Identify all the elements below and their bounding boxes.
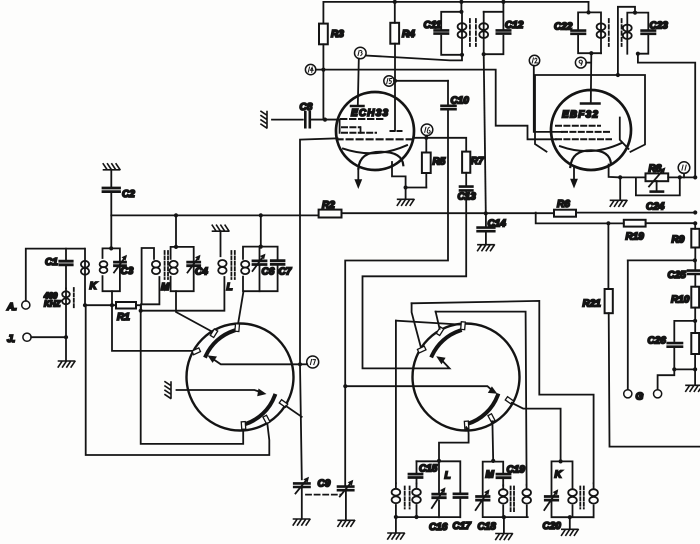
tuned circuit M band bbox=[174, 245, 178, 249]
trimmer C16 bbox=[433, 494, 445, 498]
svg-text:K: K bbox=[555, 470, 563, 481]
svg-text:M: M bbox=[161, 282, 170, 293]
svg-text:R3: R3 bbox=[331, 29, 344, 40]
svg-text:R7: R7 bbox=[471, 156, 484, 167]
svg-text:C22: C22 bbox=[554, 22, 573, 33]
terminal G right bbox=[654, 390, 662, 398]
wire link K osc band bbox=[412, 301, 594, 483]
svg-text:R9: R9 bbox=[672, 235, 685, 246]
coil M oscillator secondary bbox=[526, 485, 528, 517]
S2 rotor arc lower bbox=[468, 395, 498, 424]
wire K contact feed bbox=[112, 305, 192, 351]
svg-text:C15: C15 bbox=[419, 464, 438, 475]
terminal 13 bbox=[355, 47, 367, 59]
resistor R19 bbox=[624, 220, 646, 227]
wire K foot bbox=[111, 291, 113, 305]
ECH33 anode bbox=[351, 105, 364, 108]
ground above C2 bbox=[103, 164, 120, 170]
svg-text:C2: C2 bbox=[122, 189, 135, 200]
EBF32 inner anode lead bbox=[620, 118, 629, 149]
capacitor C7 bbox=[271, 261, 284, 265]
coil T2 primary bbox=[589, 12, 602, 53]
svg-text:R21: R21 bbox=[583, 299, 602, 310]
svg-text:R5: R5 bbox=[433, 157, 446, 168]
wire R21 to lower right bbox=[609, 313, 700, 446]
capacitor C24 bbox=[636, 177, 680, 195]
coil K tuned bbox=[100, 261, 108, 267]
trimmer C3 bbox=[115, 262, 126, 266]
S1 rotor arc upper bbox=[206, 331, 234, 356]
core K osc bbox=[580, 487, 584, 509]
EBF32 cathode bbox=[560, 143, 622, 151]
svg-text:R8: R8 bbox=[649, 164, 662, 175]
svg-text:L: L bbox=[445, 471, 451, 482]
capacitor C8 with ground bbox=[261, 111, 267, 128]
svg-text:C4: C4 bbox=[195, 267, 208, 278]
svg-text:EBF32: EBF32 bbox=[562, 110, 599, 121]
wire 15 line to C10 bbox=[394, 80, 448, 82]
ground above L bbox=[212, 225, 229, 231]
svg-text:C3: C3 bbox=[121, 266, 134, 277]
coil T1 primary bbox=[461, 12, 463, 55]
op tube ECH33 envelope bbox=[336, 92, 414, 170]
capacitor C19 bbox=[497, 474, 510, 478]
wire C23 bottom to node 11 riser bbox=[638, 54, 695, 178]
rotary switch S2 bbox=[413, 324, 520, 431]
svg-text:M: M bbox=[486, 470, 495, 481]
wire wiper 2 with arrow bbox=[177, 390, 260, 392]
frame M osc bbox=[483, 462, 528, 517]
wire 9 drop to EBF32 anode bbox=[590, 53, 593, 103]
resistor R9 bbox=[694, 223, 696, 229]
tuned circuit L band bbox=[259, 245, 263, 249]
resistor R21 bbox=[607, 223, 609, 289]
svg-text:C8: C8 bbox=[300, 102, 313, 113]
frame K osc bbox=[552, 461, 594, 517]
rotary switch S1 bbox=[187, 324, 294, 431]
capacitor C23 bbox=[635, 13, 648, 54]
ground C1 foot bbox=[65, 337, 67, 361]
terminal A bbox=[22, 301, 30, 309]
svg-text:C9: C9 bbox=[318, 479, 331, 490]
terminal 14 bbox=[305, 64, 315, 74]
wire S2 bottom contact to L osc bbox=[439, 427, 469, 461]
frame L osc bbox=[396, 461, 460, 517]
node junction R3/14 bbox=[321, 68, 325, 72]
potentiometer R8 bbox=[620, 176, 695, 178]
capacitor C15 bbox=[416, 461, 418, 483]
coil T2 secondary bbox=[618, 7, 635, 75]
capacitor C25 bbox=[688, 271, 700, 274]
capacitor C22 bbox=[578, 12, 601, 53]
terminal J bbox=[23, 333, 31, 341]
capacitor C10 bbox=[447, 81, 449, 213]
svg-text:C12: C12 bbox=[505, 20, 524, 31]
S2 contact studs bbox=[417, 322, 513, 429]
coil K oscillator secondary bbox=[593, 483, 595, 517]
wire M foot to switch contact bbox=[176, 291, 212, 331]
resistor R10 bbox=[691, 287, 699, 308]
resistor R5 bbox=[425, 138, 427, 188]
resistor R3 bbox=[322, 2, 324, 120]
wire G branch top bbox=[628, 259, 695, 261]
svg-text:C14: C14 bbox=[488, 219, 507, 230]
tuned circuit K band bbox=[109, 246, 113, 250]
node C14 junction bbox=[484, 211, 488, 215]
resistor R2 bbox=[319, 210, 342, 218]
wire L foot to switch contact bbox=[238, 291, 244, 325]
ground EBF32 cathode bbox=[619, 177, 621, 200]
coil L aerial bbox=[141, 231, 225, 311]
svg-text:J.: J. bbox=[7, 334, 15, 345]
EBF32 heater lead arrow bbox=[573, 168, 575, 181]
EBF32 grid rows bbox=[556, 125, 600, 127]
wire osc wiper 2 from C9 bbox=[345, 386, 492, 390]
svg-text:ECH33: ECH33 bbox=[351, 108, 389, 119]
core M bbox=[165, 251, 168, 279]
wire S2 contact to M osc bbox=[491, 421, 494, 461]
wire T1 riser bbox=[460, 2, 462, 12]
trimmer C20 bbox=[545, 497, 557, 501]
ground S1 wiper 2 bbox=[165, 382, 171, 399]
ground right column bbox=[686, 385, 700, 391]
wire link M osc band bbox=[436, 312, 527, 485]
S1 contact studs bbox=[192, 324, 288, 430]
resistor R6 bbox=[554, 210, 576, 217]
wire J to C1 foot bbox=[31, 336, 66, 338]
coil T1 secondary bbox=[483, 12, 485, 54]
S1 rotor arc lower bbox=[245, 396, 275, 425]
svg-text:R10: R10 bbox=[671, 295, 690, 306]
svg-text:C26: C26 bbox=[648, 336, 667, 347]
core M osc bbox=[511, 487, 514, 514]
ground ECH33 cathode bbox=[397, 199, 414, 205]
svg-text:R2: R2 bbox=[322, 200, 335, 211]
terminal 15 bbox=[384, 76, 394, 86]
core L bbox=[231, 251, 234, 279]
capacitor C17 bbox=[454, 494, 467, 498]
svg-text:C1: C1 bbox=[45, 257, 58, 268]
wire 13 to IF transformer primary bbox=[366, 55, 462, 61]
coil M aerial bbox=[141, 248, 159, 311]
resistor R11 lower bbox=[691, 333, 699, 354]
terminal 11 bbox=[678, 162, 690, 174]
svg-text:K: K bbox=[90, 281, 98, 292]
svg-text:C10: C10 bbox=[451, 96, 470, 107]
resistor R4 bbox=[393, 0, 397, 4]
svg-text:L: L bbox=[227, 282, 233, 293]
wire S2 contact to K osc bbox=[512, 403, 561, 462]
svg-text:G: G bbox=[636, 392, 644, 403]
capacitor C12 bbox=[484, 2, 504, 54]
wire wiper 1 line with arrow bbox=[213, 359, 300, 364]
capacitor C1 bbox=[65, 249, 67, 289]
wire R19 line bbox=[536, 213, 696, 224]
wire AVC bus right bbox=[576, 212, 695, 214]
coil M oscillator primary bbox=[502, 485, 504, 517]
svg-text:C11: C11 bbox=[424, 20, 442, 31]
S2 rotor arc upper bbox=[432, 331, 460, 356]
core IF 460kHz bbox=[73, 288, 75, 309]
svg-text:C20: C20 bbox=[543, 521, 562, 532]
EBF32 anode bbox=[581, 102, 600, 105]
wire S1 bottom contact to L vert bbox=[141, 311, 244, 444]
svg-text:KHZ: KHZ bbox=[44, 300, 62, 309]
capacitor C26 bbox=[674, 321, 695, 370]
capacitor C13 bbox=[460, 187, 472, 191]
svg-text:C16: C16 bbox=[429, 522, 448, 533]
resistor R7 bbox=[462, 152, 470, 173]
wire EBF32 cathode lead bbox=[609, 165, 621, 178]
wire HT top rail bbox=[323, 1, 588, 3]
coil L oscillator secondary bbox=[416, 484, 418, 517]
capacitor C2 bbox=[110, 170, 112, 216]
svg-text:C18: C18 bbox=[478, 522, 497, 533]
op tube EBF32 envelope bbox=[551, 90, 631, 170]
EBF32 diode box bbox=[535, 75, 645, 152]
wire link L osc band bbox=[396, 321, 460, 325]
svg-text:C6: C6 bbox=[262, 267, 275, 278]
ECH33 cathode bbox=[343, 145, 407, 153]
wire AVC bus mid bbox=[342, 212, 555, 214]
wire R5 foot to ground bbox=[406, 188, 427, 200]
wire 14 to EBF32 grid bbox=[316, 70, 556, 140]
terminal 17 bbox=[300, 363, 307, 365]
wire ECH33 cathode to R5 foot bbox=[392, 162, 406, 188]
wire S1 contact to C9 bbox=[286, 406, 302, 417]
core L osc bbox=[405, 487, 410, 509]
capacitor C11 bbox=[441, 12, 462, 55]
svg-text:A.: A. bbox=[6, 302, 17, 313]
terminal 12 bbox=[529, 55, 539, 65]
trimmer C6 bbox=[259, 247, 261, 292]
svg-text:C24: C24 bbox=[646, 202, 665, 213]
capacitor C9 section 2 bbox=[345, 213, 448, 520]
capacitor C9 section 1 bbox=[300, 364, 302, 518]
core T1 bbox=[470, 19, 476, 46]
svg-text:R6: R6 bbox=[557, 199, 570, 210]
ground C14 bbox=[478, 245, 495, 251]
ECH33 heater lead arrow bbox=[357, 169, 359, 181]
svg-text:R4: R4 bbox=[402, 29, 415, 40]
wire S1 bottom contact 2 bbox=[86, 305, 270, 455]
terminal 16 bbox=[421, 124, 433, 136]
terminal G left bbox=[627, 260, 629, 389]
wire T2 riser bbox=[588, 2, 590, 13]
coil antenna secondary bbox=[84, 249, 86, 306]
svg-text:C19: C19 bbox=[507, 465, 526, 476]
wire ECH33 grid drop to band switch wiper bbox=[300, 138, 338, 364]
wire AVC bus left bbox=[111, 214, 318, 216]
resistor R1 bbox=[85, 305, 141, 311]
wire T1 secondary down to AVC line bbox=[484, 54, 486, 213]
terminal 9 bbox=[575, 57, 586, 68]
coil L oscillator primary bbox=[395, 483, 397, 517]
wire grid feeds from AVC bus bbox=[176, 215, 261, 247]
svg-text:C17: C17 bbox=[453, 521, 472, 532]
ECH33 grid rows bbox=[341, 118, 383, 120]
svg-text:C25: C25 bbox=[668, 270, 687, 281]
trimmer C4 bbox=[188, 262, 200, 266]
wire antenna riser bbox=[26, 249, 84, 301]
link dashed C9 gang bbox=[306, 494, 341, 496]
trimmer C18 bbox=[477, 497, 489, 501]
svg-text:C7: C7 bbox=[279, 267, 292, 278]
capacitor C14 bbox=[485, 213, 487, 244]
coil K oscillator primary bbox=[568, 489, 577, 496]
svg-text:R1: R1 bbox=[117, 312, 130, 323]
wire 12 to EBF32 grid bbox=[534, 66, 562, 132]
coil IF 460kHz primary bbox=[65, 289, 67, 338]
svg-text:C23: C23 bbox=[650, 21, 669, 32]
node R3 to grid bbox=[323, 118, 327, 122]
wire osc wiper feed from C13 bbox=[363, 192, 467, 369]
core T2 bbox=[609, 19, 622, 46]
wire grid leak line bbox=[414, 138, 466, 152]
svg-text:R19: R19 bbox=[626, 232, 645, 243]
